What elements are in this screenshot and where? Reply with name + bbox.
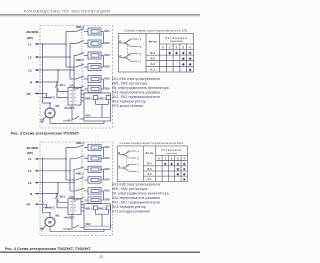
svg-text:+40+85°С: +40+85°С — [64, 107, 75, 110]
svg-text:М1 электродвигатель вентилятор: М1 электродвигатель вентилятора — [112, 86, 169, 90]
svg-text:ЕК1-ЕК6 электронагреватели: ЕК1-ЕК6 электронагреватели — [112, 77, 160, 81]
svg-text:М1: М1 — [56, 104, 60, 108]
svg-text:ЕК1: ЕК1 — [105, 29, 111, 33]
coil returns — [96, 100, 109, 118]
heater EK3 — [88, 52, 101, 59]
svg-text:ЕК1-ЕК6 электронагреватели: ЕК1-ЕК6 электронагреватели — [112, 182, 160, 186]
wire L1 — [37, 32, 76, 104]
header rule band — [0, 14, 200, 17]
switch mech link — [127, 42, 129, 60]
svg-text:4: 4 — [140, 37, 142, 41]
svg-text:PE: PE — [27, 92, 31, 96]
svg-text:КМ1, КМ2 контакторы: КМ1, КМ2 контакторы — [112, 81, 148, 85]
svg-text:13: 13 — [99, 255, 103, 259]
svg-text:А-2: А-2 — [151, 62, 156, 66]
contactor KM2.2 mech link — [81, 63, 83, 89]
svg-text:ЕК6: ЕК6 — [105, 87, 111, 91]
heater return bus — [101, 32, 104, 90]
heater EK6 — [88, 86, 101, 93]
legend figure 1 — [112, 77, 169, 108]
footer rule — [0, 252, 200, 253]
svg-text:3: 3 — [140, 45, 142, 49]
motor M1 feed wire — [43, 103, 51, 108]
svg-text:1: 1 — [140, 60, 142, 64]
svg-text:2: 2 — [176, 45, 178, 49]
svg-text:ХР1 вилка сетевая: ХР1 вилка сетевая — [112, 104, 143, 108]
heater EK4 — [88, 64, 101, 71]
svg-text:(ВР): (ВР) — [27, 36, 33, 40]
motor M1 — [45, 108, 55, 118]
svg-text:КМ2.2: КМ2.2 — [76, 58, 84, 62]
svg-text:SK1: SK1 — [60, 83, 66, 87]
svg-text:ЕК3: ЕК3 — [105, 53, 111, 57]
svg-text:SА1: SА1 — [70, 84, 76, 88]
svg-text:ЕК2: ЕК2 — [105, 41, 111, 45]
svg-text:t>+90°С: t>+90°С — [46, 96, 56, 99]
contactor KM1.2 mech link — [81, 30, 83, 56]
svg-text:М: М — [48, 112, 51, 116]
heater EK2 — [88, 40, 101, 47]
KM1.2 contact 2 — [76, 41, 88, 44]
svg-text:SK2: SK2 — [86, 113, 92, 117]
svg-text:3: 3 — [183, 45, 185, 49]
svg-text:ХТ1 колодка клеммная: ХТ1 колодка клеммная — [112, 209, 150, 213]
svg-text:1: 1 — [169, 45, 171, 49]
svg-text:Установка: Установка — [165, 36, 187, 40]
svg-text:SА1 переключатель режимов: SА1 переключатель режимов — [112, 196, 160, 200]
svg-text:Рис. 3 Схема электрическая ТП1: Рис. 3 Схема электрическая ТП15ЭКТ — [11, 132, 80, 136]
wire PE + chassis — [37, 94, 50, 98]
table frame — [119, 34, 194, 73]
wire L2 — [37, 44, 76, 80]
svg-text:ЕК5: ЕК5 — [105, 77, 111, 81]
wire L3 — [37, 56, 76, 90]
svg-text:В-3: В-3 — [151, 56, 156, 60]
KM2.2 contact 1 — [76, 64, 88, 67]
wire N — [37, 82, 68, 98]
svg-text:2: 2 — [140, 52, 142, 56]
KM1.2 contact 1 — [76, 29, 88, 32]
KM2.2 contact 3 — [76, 86, 88, 89]
svg-text:КМ2.1: КМ2.1 — [99, 96, 107, 100]
heater EK1 — [88, 28, 101, 35]
control housing box — [84, 93, 111, 121]
svg-text:L1: L1 — [28, 42, 32, 46]
heater EK5 — [88, 76, 101, 83]
svg-text:В-4: В-4 — [151, 51, 156, 55]
svg-text:SА1 переключатель режимов: SА1 переключатель режимов — [112, 90, 160, 94]
bottom bus — [50, 118, 104, 124]
motor ground — [40, 116, 46, 122]
svg-text:Схема коммутации переключателя: Схема коммутации переключателя SА1 — [124, 29, 188, 33]
junction dots — [65, 43, 67, 45]
svg-text:0: 0 — [162, 45, 164, 49]
svg-text:М1 электродвигатель вентилятор: М1 электродвигатель вентилятора — [112, 191, 169, 195]
svg-text:~3N,380В: ~3N,380В — [25, 30, 38, 34]
svg-text:SK1, SK2 термовыключатели: SK1, SK2 термовыключатели — [112, 200, 160, 204]
enclosure dashed box — [40, 26, 113, 129]
svg-text:РУКОВОДСТВО ПО ЭКСПЛУАТАЦИИ: РУКОВОДСТВО ПО ЭКСПЛУАТАЦИИ — [24, 8, 110, 13]
svg-text:t>+90°С: t>+90°С — [64, 120, 74, 123]
SA1 output pins — [81, 91, 84, 102]
svg-text:КМ1, КМ2 контакторы: КМ1, КМ2 контакторы — [112, 187, 148, 191]
svg-text:А-1: А-1 — [151, 68, 156, 72]
svg-text:ЕК4: ЕК4 — [105, 65, 111, 69]
svg-text:4: 4 — [189, 45, 191, 49]
svg-text:Кл-ты: Кл-ты — [149, 40, 158, 44]
legend figure 2 — [112, 182, 169, 213]
svg-text:Рис. 4 Схема электрическая ТЭ2: Рис. 4 Схема электрическая ТЭ22ЭКТ, ТЭ30… — [5, 247, 92, 251]
KM1.2 contact 3 — [76, 53, 88, 56]
svg-text:N: N — [30, 80, 32, 84]
svg-text:SK3 терморегулятор: SK3 терморегулятор — [112, 205, 146, 209]
svg-text:КМ1.1: КМ1.1 — [85, 96, 93, 100]
svg-text:КМ1.2: КМ1.2 — [76, 25, 84, 29]
svg-text:SK1, SK2 термовыключатели: SK1, SK2 термовыключатели — [112, 95, 160, 99]
svg-text:L3: L3 — [28, 68, 32, 72]
svg-text:переключат.: переключат. — [170, 41, 184, 43]
svg-text:SK3 терморегулятор: SK3 терморегулятор — [112, 99, 146, 103]
plus marks — [168, 52, 191, 71]
KM2.2 contact 2 — [76, 76, 88, 79]
svg-text:L2: L2 — [28, 55, 32, 59]
